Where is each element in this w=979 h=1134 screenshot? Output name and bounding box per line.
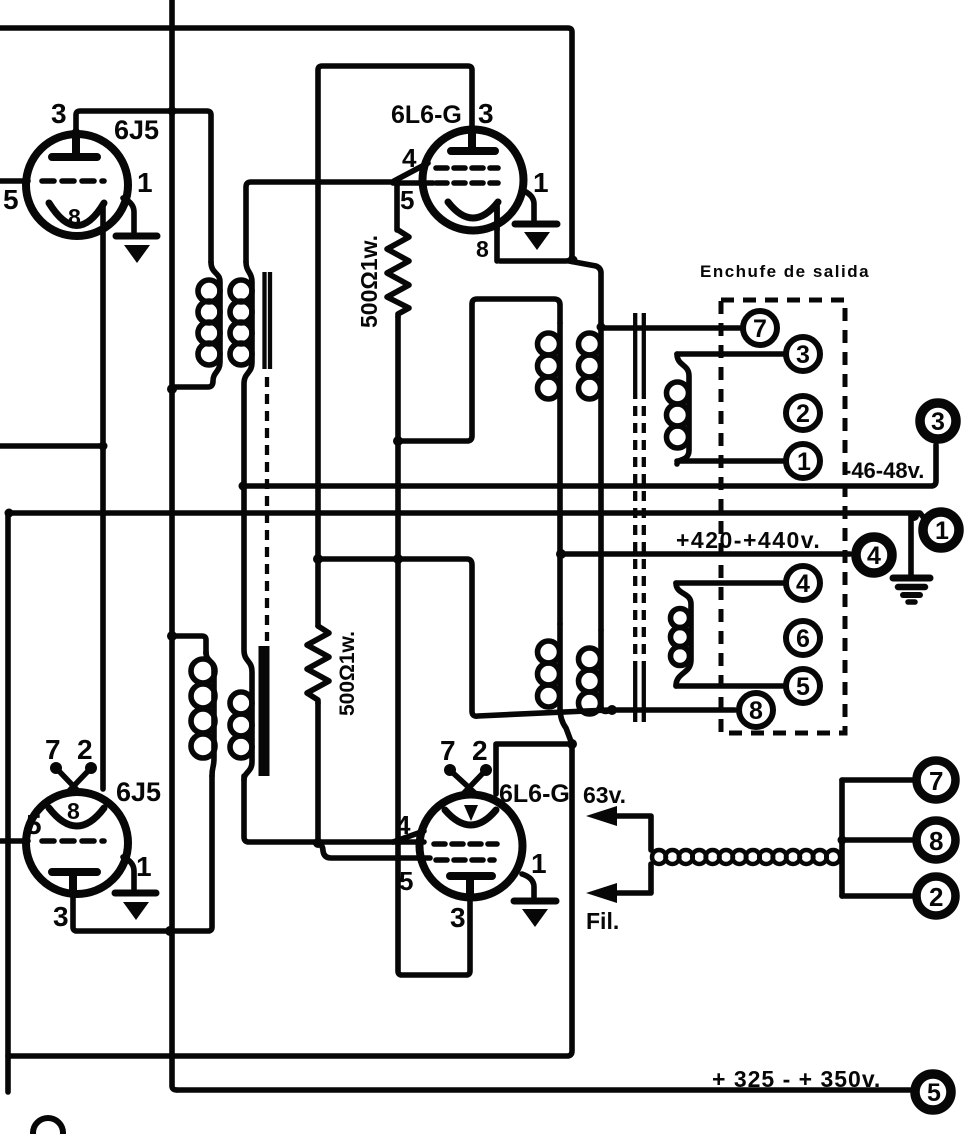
tube V2 control grid dashes	[436, 180, 498, 186]
tube V4 plate	[450, 876, 492, 897]
resistor R1 500ohm upper	[387, 230, 409, 317]
wire bottom bus +325-+350v	[177, 1087, 910, 1093]
wire resistor R2 top lead	[315, 559, 321, 626]
svg-text:1: 1	[533, 167, 549, 198]
wire output secondary to plug 7	[602, 325, 740, 331]
svg-text:8: 8	[929, 826, 943, 856]
plug terminal 2	[786, 396, 820, 430]
tube V1 cathode arc	[49, 203, 104, 226]
terminal 8 filament (heavy)	[917, 821, 956, 860]
svg-text:5: 5	[26, 809, 42, 840]
wire resistor R1 top lead	[394, 185, 400, 230]
plug terminal 3	[786, 337, 820, 371]
wire jog from screen node down to output transformer node	[569, 261, 601, 327]
svg-text:-46-48v.: -46-48v.	[844, 458, 924, 483]
svg-text:7: 7	[45, 734, 61, 765]
wire pin4 diagonal entry lower 6L6G	[393, 831, 424, 842]
wire to plug 1	[677, 458, 783, 464]
svg-text:1: 1	[797, 448, 811, 476]
transformer T2 output, winding A lower with hook to right vertical	[538, 624, 573, 744]
tube V2 plate	[451, 131, 495, 151]
svg-text:6L6-G: 6L6-G	[391, 101, 462, 129]
ground G3 (lower 6J5)	[115, 890, 156, 897]
svg-text:5: 5	[400, 185, 414, 215]
transformer T2 core right line	[642, 313, 646, 722]
tube V2 pin1 lead	[522, 190, 534, 222]
wire bias vertical to lower driver primary top	[172, 636, 206, 654]
wire top B+ bus to screen node	[0, 28, 572, 261]
ground G1 (upper 6J5)	[116, 233, 157, 240]
wire upper resistor bottom loop to output primary A	[398, 299, 560, 441]
tube V3 plate	[52, 872, 97, 894]
wire grid return to left edge	[0, 443, 103, 449]
svg-text:1: 1	[137, 167, 153, 198]
transformer T1 secondary lower loops	[230, 692, 252, 758]
tube V4 screen grid dashes	[434, 841, 497, 847]
svg-text:3: 3	[931, 408, 945, 436]
terminal 1 output (heavy)	[923, 512, 959, 548]
ground G4 (lower 6L6G)	[514, 898, 556, 905]
tube V2 cathode arc	[448, 202, 498, 218]
wire to plug pin 8	[610, 707, 735, 713]
wire to terminal 2 filament	[842, 893, 912, 899]
plug terminal 5	[786, 669, 820, 703]
wire to terminal 7 filament	[842, 777, 912, 783]
svg-text:6J5: 6J5	[116, 777, 161, 807]
plug terminal 8	[739, 693, 773, 727]
tube V3 cathode arc	[49, 808, 104, 826]
transformer T2 core left line	[633, 313, 637, 722]
svg-text:1: 1	[136, 851, 152, 882]
svg-text:+ 325 - + 350v.: + 325 - + 350v.	[712, 1066, 881, 1092]
wire bus -46-48v to terminal 3	[243, 445, 936, 486]
tube V4 pin1 lead	[522, 874, 534, 897]
plug dashed box	[721, 300, 845, 733]
wire lower bias node horizontal	[318, 559, 608, 716]
svg-text:3: 3	[478, 98, 494, 129]
svg-text:7: 7	[440, 735, 456, 766]
transformer T2 output, winding B upper	[579, 327, 602, 630]
resistor R2 500ohm lower	[307, 626, 329, 703]
tube V1 pin5 wire	[0, 178, 28, 184]
transformer T2 output, winding B lower	[579, 630, 615, 714]
wire branch to pin5 of lower 6L6G	[318, 843, 430, 858]
svg-text:Enchufe de salida: Enchufe de salida	[700, 262, 870, 281]
wire driver secondary lower to 6L6G pin4 grid	[244, 776, 424, 842]
earth ground (right)	[893, 575, 930, 582]
svg-text:7: 7	[929, 766, 943, 796]
wire to plug 3	[677, 351, 783, 357]
transformer T2 secondary upper winding	[667, 354, 690, 464]
transformer T2 secondary lower winding	[671, 583, 692, 686]
tube V3 pin1 lead	[123, 857, 134, 889]
wire pin8 lead of upper 6L6G to screen node	[494, 206, 500, 261]
transformer T1 driver, upper secondary winding	[230, 262, 252, 780]
filament winding (coiled cord)	[652, 850, 840, 864]
wire R2 bottom lead	[315, 703, 321, 843]
wire upper 6J5 cathode down to lower 6J5 top	[100, 206, 106, 789]
wire bus +420-+440v (middle bus)	[8, 513, 924, 518]
terminal cropped at bottom left	[33, 1118, 63, 1134]
wire to terminal 8 filament	[842, 837, 912, 843]
transformer T1 core upper (solid bars)	[265, 272, 271, 369]
svg-text:4: 4	[867, 542, 881, 570]
svg-text:+420-+440v.: +420-+440v.	[676, 527, 821, 553]
wire +420 feed to terminal 4	[561, 551, 850, 557]
wire upper 6J5 plate to driver transformer primary	[76, 111, 211, 262]
svg-text:8: 8	[476, 236, 489, 262]
svg-text:3: 3	[51, 98, 67, 129]
tube V1 grid (dashed)	[42, 178, 104, 184]
plug terminal 1	[786, 444, 820, 478]
wire pin4 diagonal entry upper 6L6G	[394, 163, 428, 181]
svg-text:1: 1	[531, 848, 547, 879]
svg-text:500Ω1w.: 500Ω1w.	[356, 235, 382, 328]
tube V2 upper 6L6-G envelope	[423, 130, 524, 231]
svg-text:6J5: 6J5	[114, 115, 159, 145]
svg-text:500Ω1w.: 500Ω1w.	[336, 631, 359, 716]
svg-text:8: 8	[749, 697, 763, 725]
svg-text:3: 3	[450, 902, 466, 933]
wire lower 6L6G pin2 lead	[496, 744, 570, 794]
tube V3 grid (dashed)	[42, 838, 104, 844]
filament arrow lower	[612, 864, 651, 893]
svg-text:4: 4	[796, 570, 810, 598]
plug terminal 6	[786, 621, 820, 655]
wire lower 6J5 plate to lower driver transformer	[73, 776, 212, 931]
wire upper 6L6G grid rectangle and long grid vertical	[318, 66, 472, 558]
svg-text:2: 2	[929, 882, 943, 912]
tube V3 top cap pins 7 and 2	[58, 770, 89, 792]
tube V1 plate	[52, 132, 97, 157]
tube V2 pin8 lead	[494, 204, 500, 230]
svg-text:3: 3	[796, 341, 810, 369]
svg-text:8: 8	[67, 798, 80, 824]
svg-text:2: 2	[77, 734, 93, 765]
tube V1 upper 6J5 envelope	[26, 134, 128, 236]
wire long left vertical (bias line)	[172, 0, 177, 1090]
wire to plug 5	[676, 683, 783, 689]
terminal 5 output (heavy)	[915, 1074, 951, 1110]
svg-text:2: 2	[796, 400, 810, 428]
wire R1 bottom lead long vertical to lower 6L6G grid	[398, 317, 470, 975]
ground G2 (upper 6L6G)	[515, 221, 557, 228]
svg-text:5: 5	[927, 1079, 941, 1107]
filament right vertical	[839, 780, 845, 896]
svg-text:63v.: 63v.	[583, 782, 626, 808]
svg-text:5: 5	[3, 184, 19, 215]
wire left vertical of middle bus down	[5, 513, 11, 1092]
tube V2 screen grid dashes	[436, 165, 498, 171]
tube V1 pin1 lead	[123, 198, 134, 232]
transformer T1 driver, upper primary winding	[172, 262, 220, 387]
tube V4 top cap pins 7 and 2	[452, 772, 484, 795]
svg-text:7: 7	[753, 315, 767, 343]
terminal 7 filament (heavy)	[917, 761, 956, 800]
svg-text:6L6-G: 6L6-G	[499, 780, 570, 808]
svg-text:1: 1	[935, 517, 949, 545]
terminal 4 output (heavy)	[856, 537, 892, 573]
svg-text:2: 2	[472, 735, 488, 766]
svg-text:5: 5	[399, 866, 413, 896]
svg-text:Fil.: Fil.	[586, 908, 619, 934]
terminal 2 filament (heavy)	[917, 877, 956, 916]
wire driver secondary top to upper 6L6G grid	[246, 182, 393, 262]
svg-text:5: 5	[796, 673, 810, 701]
tube V4 lower 6L6-G envelope	[420, 795, 523, 898]
tube V3 pin5 wire	[0, 838, 28, 844]
tube V4 cathode arc with cap contact	[445, 810, 496, 825]
plug terminal 4	[786, 566, 820, 600]
tube V4 control grid dashes	[436, 857, 494, 863]
svg-text:4: 4	[402, 143, 417, 173]
transformer T1 core lower (solid black bar)	[259, 646, 270, 776]
plug terminal 7	[743, 311, 777, 345]
svg-text:6: 6	[796, 625, 810, 653]
wire grid stub into upper 6L6G	[393, 180, 433, 186]
wire to plug 4	[676, 580, 783, 586]
svg-text:4: 4	[396, 810, 411, 840]
transformer T2 output, winding A upper	[538, 323, 561, 624]
wire earth ground stem	[908, 515, 914, 576]
terminal 3 output (heavy)	[920, 403, 956, 439]
wire right long vertical to bottom bus	[8, 744, 572, 1056]
tube V3 lower 6J5 envelope	[26, 792, 128, 894]
filament arrow upper	[612, 816, 651, 850]
transformer T1 shield (dashed)	[265, 377, 269, 641]
transformer T1 lower primary winding	[191, 652, 215, 776]
svg-text:3: 3	[53, 901, 69, 932]
svg-text:8: 8	[68, 204, 81, 230]
